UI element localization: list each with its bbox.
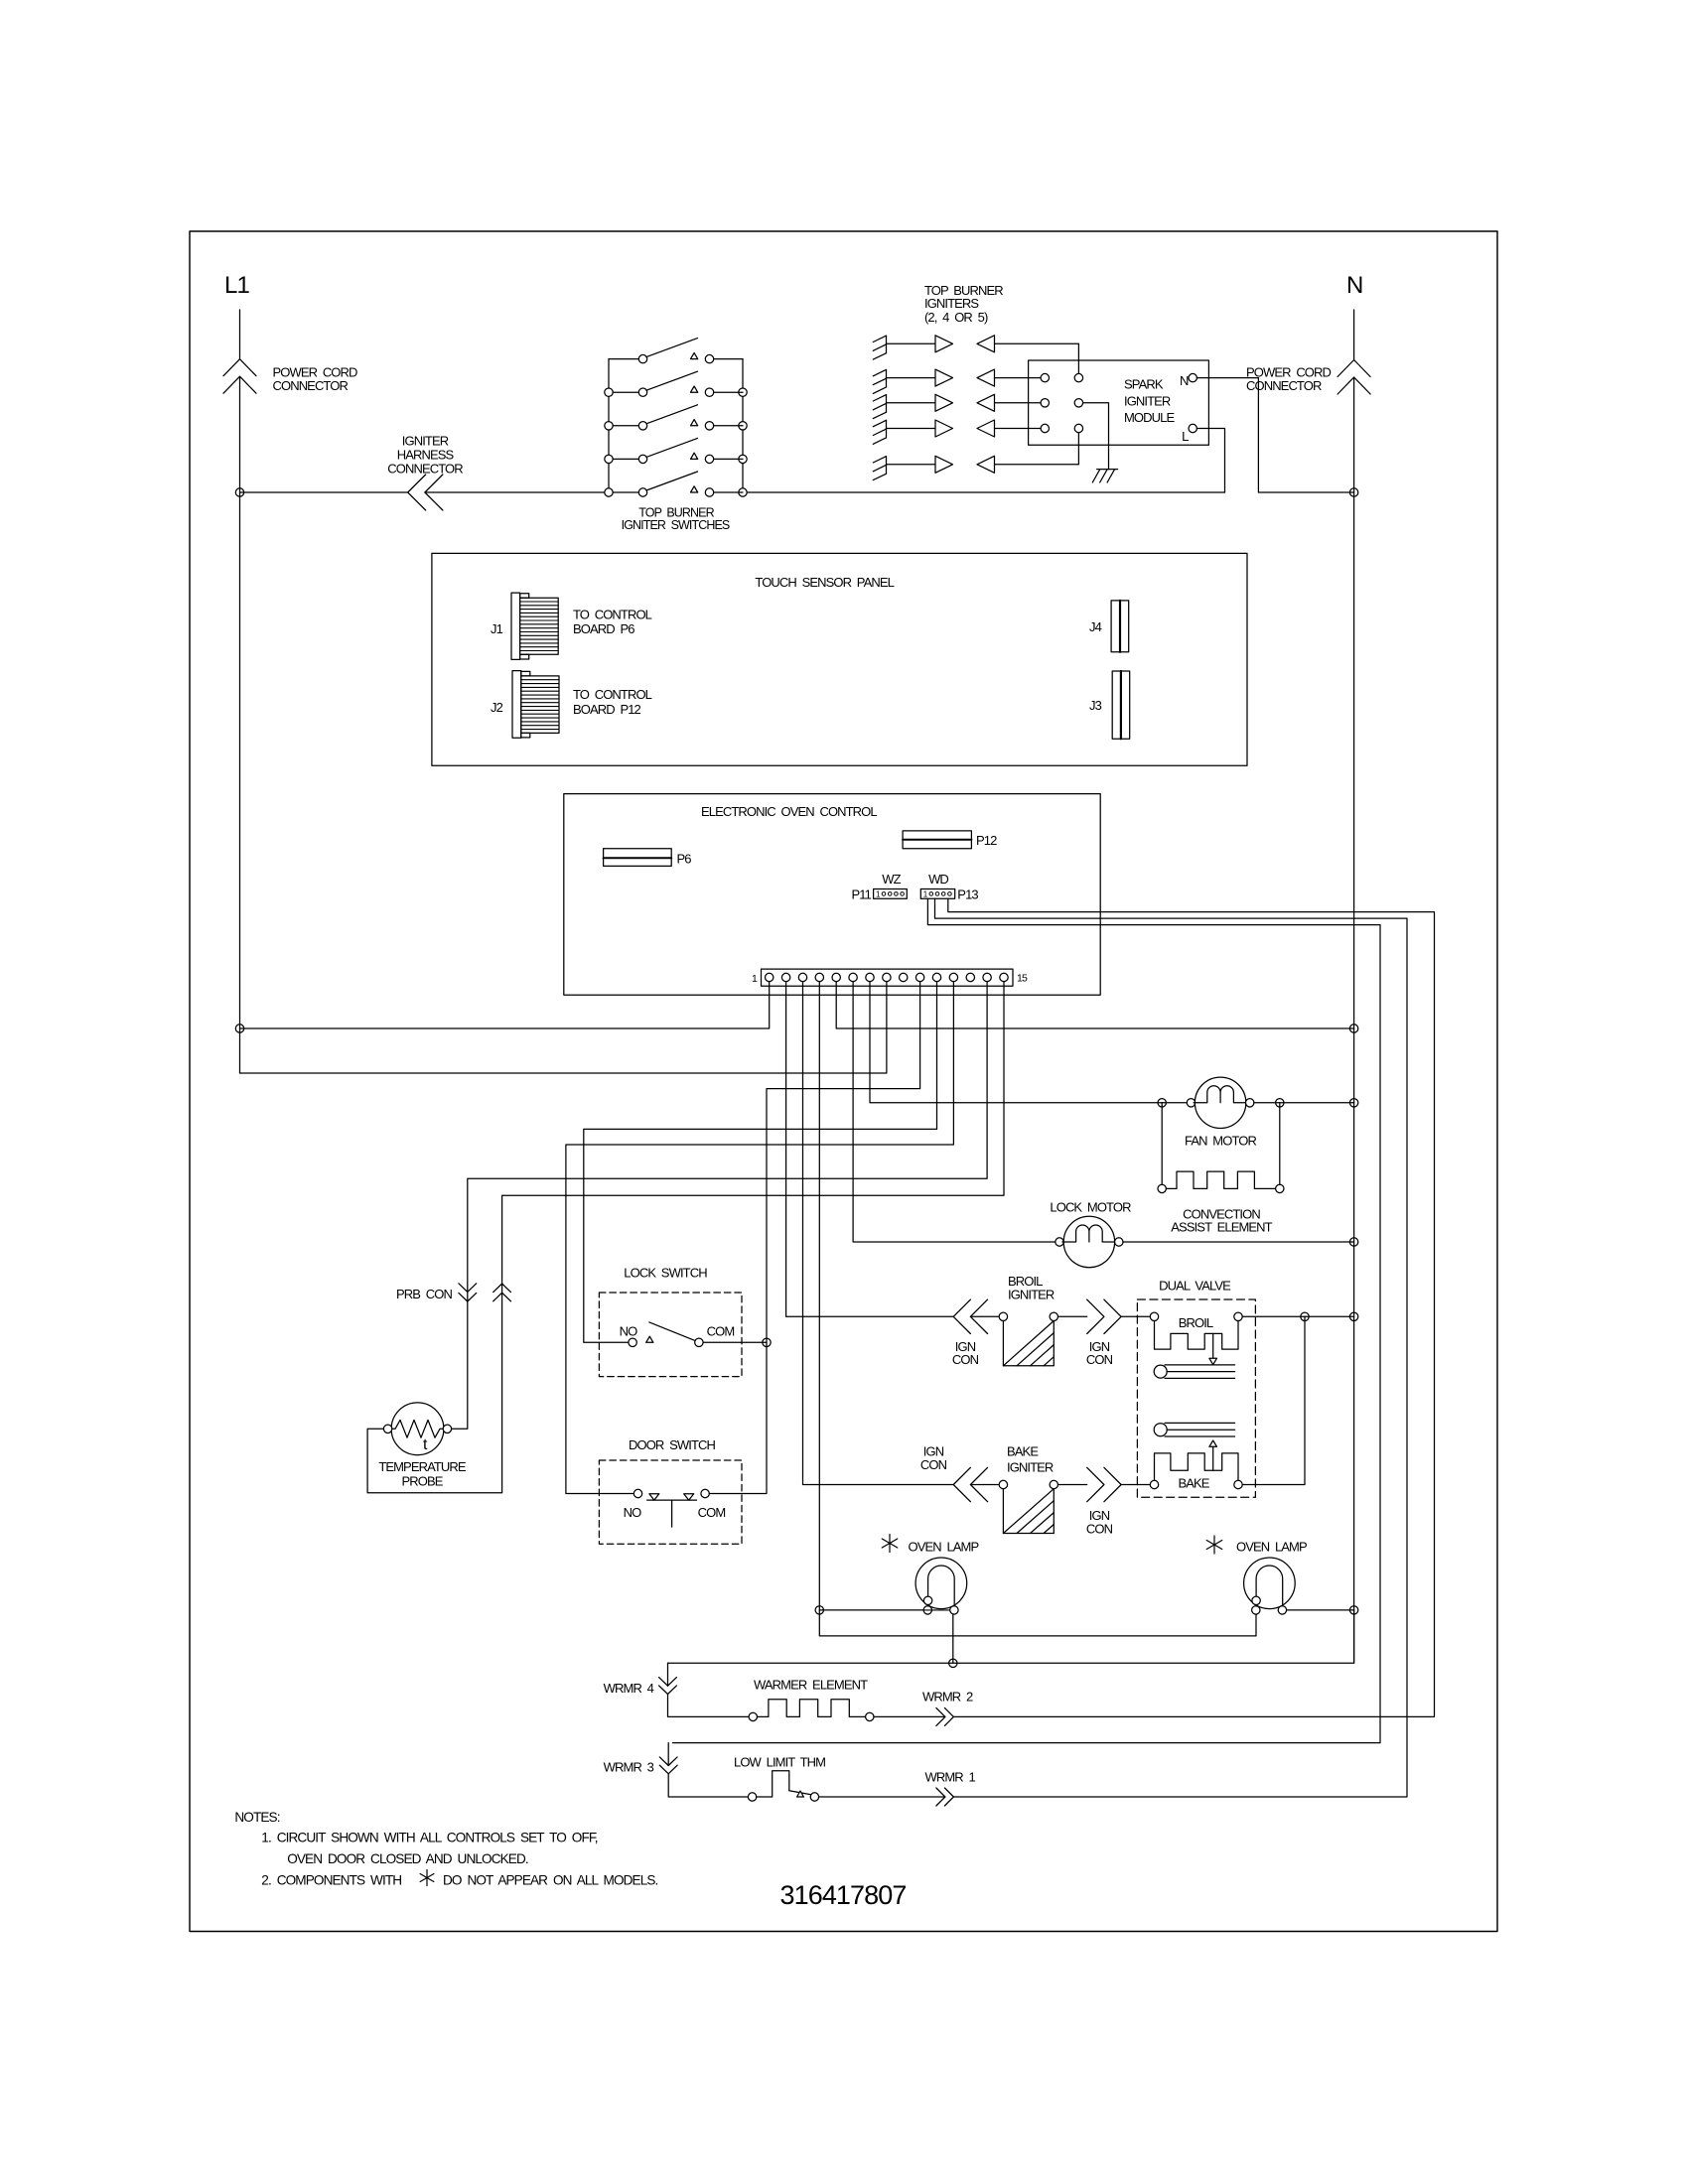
terminal pin 7 [866,973,874,981]
svg-text:BAKE: BAKE [1178,1476,1209,1491]
bake igniter left terminal [999,1480,1007,1488]
low limit right terminal [810,1793,818,1801]
wire pin1 to L1 [240,982,770,1028]
asterisk (lamp 2) [1213,1536,1215,1554]
terminal pin 2 [781,973,789,981]
module pin [1074,399,1082,407]
spark gap igniter 3 [887,402,936,404]
wire low limit to WRMR1 [819,1796,945,1798]
terminal strip [762,969,1014,986]
svg-text:CON: CON [920,1457,947,1472]
svg-text:OVEN LAMP: OVEN LAMP [1236,1540,1307,1555]
wire igniter2 to module [995,377,1042,379]
wire igniter1 to module [995,343,1079,373]
wire igniter3 to module [995,402,1042,404]
wire to bake igniter [970,1484,999,1486]
lock switch COM contact [695,1338,703,1346]
lock motor left terminal [1055,1238,1063,1246]
svg-text:COM: COM [707,1323,735,1338]
svg-text:CONNECTOR: CONNECTOR [273,378,349,393]
fan motor left terminal [1187,1099,1195,1107]
low limit left terminal [748,1793,756,1801]
wire lock motor to N [1123,1241,1354,1243]
border frame [190,231,1497,1932]
WRMR 4 connector [659,1678,677,1687]
svg-text:NOTES:: NOTES: [234,1810,279,1825]
warmer element left terminal [749,1712,757,1720]
lock motor [1063,1216,1114,1267]
door switch box [599,1460,742,1544]
svg-text:1. CIRCUIT SHOWN WITH ALL CO: 1. CIRCUIT SHOWN WITH ALL CONTROLS SET T… [261,1830,597,1844]
wire pin5 to N [836,982,1353,1028]
wire WRMR3 drop [667,1743,669,1766]
spark gap igniter 1 [887,342,936,344]
wire warmer to WRMR2 [874,1715,945,1717]
oven lamp 2 [1244,1558,1296,1609]
svg-text:IGNITER: IGNITER [1007,1459,1054,1474]
svg-text:J2: J2 [491,700,503,715]
svg-text:BOARD P12: BOARD P12 [573,702,641,717]
node pin1/L1 [235,1024,243,1032]
node lamp2/N [1349,1606,1357,1614]
svg-text:J3: J3 [1089,698,1102,713]
svg-text:CON: CON [1086,1352,1113,1367]
door switch marker 2 [684,1494,694,1500]
spark igniter module box [1029,360,1209,445]
wire pin12 to door switch [566,982,954,1494]
top burner igniter 1 electrode [886,336,888,353]
node lamp1 return [949,1659,957,1667]
door switch COM contact [701,1489,709,1497]
wire door COM to bus [709,1493,767,1495]
broil valve solenoid [1155,1321,1239,1350]
power cord connector (L1) [223,359,256,376]
wire module L to main bus [1196,429,1224,493]
wire lamp1 terminals [923,1609,949,1611]
svg-text:BAKE: BAKE [1007,1444,1039,1459]
wire broil igniter to valve [1058,1315,1087,1317]
module pin [1041,399,1049,407]
svg-text:IGNITER: IGNITER [1008,1288,1055,1302]
node oven lamp feed [815,1606,823,1614]
wire WRMR4 to warmer element [668,1695,750,1717]
connector J4 [1111,601,1129,652]
terminal pin 12 [949,973,957,981]
lock switch throw marker [646,1336,653,1342]
probe connector (down chevrons) [459,1284,477,1293]
broil valve left terminal [1150,1312,1158,1320]
temperature probe [391,1403,444,1455]
probe left terminal [383,1425,391,1433]
svg-text:NO: NO [624,1505,641,1520]
svg-text:TO CONTROL: TO CONTROL [573,608,652,622]
wire pin6 to lock motor [853,982,1055,1242]
spark gap igniter 4 [887,428,936,430]
connector P11 [874,889,908,899]
svg-text:P11: P11 [852,887,872,902]
module pin [1074,373,1082,381]
broil igniter left terminal [999,1312,1007,1320]
svg-text:WRMR 2: WRMR 2 [922,1689,973,1704]
top burner igniter 4 electrode [886,420,888,438]
broil valve right terminal [1234,1312,1242,1320]
IGN CON connector (bake right) [1087,1467,1104,1501]
svg-text:HARNESS: HARNESS [397,447,455,462]
svg-text:CONNECTOR: CONNECTOR [387,461,463,476]
svg-text:CON: CON [952,1352,979,1367]
svg-text:L1: L1 [224,272,249,299]
svg-text:IGNITER: IGNITER [1124,394,1171,409]
wire fan to N [1254,1102,1354,1104]
wire pin10 to switch COM bus [767,982,920,1493]
svg-text:(2, 4 OR 5): (2, 4 OR 5) [924,310,988,325]
lock switch NO contact [629,1338,636,1346]
svg-text:NO: NO [620,1323,637,1338]
wire igniter4 to module [995,428,1042,430]
probe connector (up chevrons) [493,1284,511,1293]
asterisk in note [426,1870,428,1886]
wire P13-b to WRMR1 feed [935,898,1408,1797]
svg-text:FAN MOTOR: FAN MOTOR [1185,1134,1256,1149]
node pin5/N [1349,1024,1357,1032]
node lock motor/N [1349,1238,1357,1246]
broil gas outlet [1154,1365,1167,1378]
IGN CON connector (broil right) [1087,1299,1104,1333]
svg-text:IGNITERS: IGNITERS [924,296,979,311]
svg-text:ASSIST ELEMENT: ASSIST ELEMENT [1171,1220,1272,1235]
svg-text:OVEN DOOR CLOSED AND UNLOCKED.: OVEN DOOR CLOSED AND UNLOCKED. [287,1851,528,1866]
warmer element [758,1700,866,1717]
spark gap igniter 5 [887,464,936,466]
terminal pin 4 [815,973,823,981]
svg-text:WRMR 4: WRMR 4 [604,1681,654,1696]
power cord connector (N) [1337,360,1370,377]
svg-text:LOCK MOTOR: LOCK MOTOR [1050,1200,1131,1215]
connector P13 [920,889,954,899]
svg-text:WRMR 3: WRMR 3 [604,1760,654,1775]
bake valve solenoid [1155,1453,1239,1480]
wire module N to N bus [1196,378,1353,492]
svg-text:N: N [1180,373,1189,388]
warmer element right terminal [866,1712,874,1720]
svg-text:2. COMPONENTS WITH: 2. COMPONENTS WITH [261,1873,401,1888]
wire switch right bus [742,359,744,492]
switch S4 [605,455,613,463]
wire fan line [1162,1102,1187,1104]
svg-text:P13: P13 [957,887,978,902]
module pin [1041,424,1049,432]
connector J3 [1112,671,1130,739]
switch S3 [605,422,613,430]
bake valve left terminal [1150,1480,1158,1488]
electronic oven control box [564,794,1100,996]
svg-text:TEMPERATURE: TEMPERATURE [378,1459,467,1474]
terminal pin 15 [1000,973,1008,981]
svg-text:WARMER ELEMENT: WARMER ELEMENT [754,1678,868,1693]
wire WRMR3 to low limit [668,1774,748,1797]
wire pin2 to broil igniter [786,982,954,1317]
broil igniter right terminal [1050,1312,1057,1320]
svg-text:N: N [1346,272,1362,299]
fan motor [1195,1077,1245,1128]
svg-text:OVEN LAMP: OVEN LAMP [909,1540,979,1555]
svg-text:DOOR SWITCH: DOOR SWITCH [629,1437,715,1452]
module terminal L [1189,424,1196,432]
wire convection right riser [1279,1103,1281,1184]
wire broil valve to N [1242,1315,1353,1317]
svg-text:TOUCH SENSOR PANEL: TOUCH SENSOR PANEL [755,575,894,590]
connector P6 [604,849,672,867]
wire lock COM to bus [703,1341,767,1343]
probe right terminal [443,1425,451,1433]
svg-text:LOW LIMIT THM: LOW LIMIT THM [734,1755,825,1770]
wire to broil igniter [970,1315,999,1317]
wire pin8 to L1 [240,982,887,1073]
wire bake valve riser [1242,1316,1305,1484]
wire pin14 to probe (PRB CON) [452,982,987,1430]
terminal pin 13 [966,973,974,981]
connector J1 [511,593,520,659]
bake valve flow arrow [1209,1440,1217,1446]
switch S5 [605,488,613,496]
oven lamp 1 [915,1558,967,1609]
svg-text:WD: WD [928,872,948,887]
svg-text:PROBE: PROBE [401,1473,443,1488]
svg-text:COM: COM [698,1505,726,1520]
WRMR 3 connector [659,1757,677,1766]
terminal pin 8 [883,973,891,981]
svg-text:LOCK SWITCH: LOCK SWITCH [624,1265,707,1280]
lock switch blade [649,1322,695,1341]
WRMR 1 connector [936,1788,945,1806]
lock motor right terminal [1115,1238,1123,1246]
fan motor right terminal [1246,1099,1254,1107]
wire N bus [1353,377,1355,1663]
top burner igniter 3 electrode [886,395,888,413]
module pin [1074,424,1082,432]
wire L1 drop [239,310,241,359]
door switch marker 1 [649,1494,659,1500]
terminal pin 5 [832,973,840,981]
svg-text:J4: J4 [1089,619,1102,634]
node L1-bus junction [235,488,243,496]
terminal pin 10 [915,973,923,981]
svg-text:DUAL VALVE: DUAL VALVE [1159,1279,1231,1294]
wire lamp feed to lamp1 [819,1609,923,1611]
svg-text:DO NOT APPEAR ON ALL MODELS.: DO NOT APPEAR ON ALL MODELS. [443,1873,658,1888]
wire pin15 to probe return [367,982,1004,1493]
node fan/N [1349,1099,1357,1107]
node broil/bake junction [1301,1312,1309,1320]
svg-text:CONNECTOR: CONNECTOR [1246,378,1322,393]
wire L1 bus vertical [239,376,241,1073]
connector P12 [903,831,971,849]
broil igniter (hot surface) [1003,1321,1054,1366]
convection left terminal [1158,1184,1166,1192]
touch sensor panel box [432,553,1247,765]
wire pin3 to bake igniter [803,982,954,1485]
wire pin4 to oven lamps [819,982,1256,1636]
broil valve flow arrow [1212,1333,1214,1358]
node fan feed [1158,1099,1166,1107]
svg-text:P12: P12 [976,833,997,848]
convection right terminal [1276,1184,1284,1192]
svg-text:SPARK: SPARK [1124,377,1164,392]
wire P13-c to WRMR2 feed [948,898,1435,1716]
wire WRMR4 drop [667,1663,669,1686]
wire switch block to spark module L riser [743,491,1225,493]
switch S2 [605,388,613,396]
wire convection left riser [1161,1103,1163,1184]
node lock switch COM junction [763,1338,771,1346]
svg-text:MODULE: MODULE [1124,410,1175,425]
IGN CON connector (broil left) [953,1299,970,1333]
svg-text:P6: P6 [677,852,692,867]
switch S1 [609,358,638,360]
svg-text:CON: CON [1086,1521,1113,1536]
dual valve box [1137,1299,1255,1497]
igniter harness connector [408,475,426,510]
wire switch left bus [608,359,610,492]
svg-text:L: L [1182,429,1189,444]
node broil/N [1349,1312,1357,1320]
wire lamp2 to N [1287,1609,1354,1611]
wire harness to switch block [425,491,609,493]
wire main bus L1 to harness connector [240,491,408,493]
svg-text:316417807: 316417807 [779,1880,906,1910]
ground [1097,469,1118,471]
terminal pin 6 [849,973,857,981]
node N main junction [1349,488,1357,496]
svg-text:PRB CON: PRB CON [396,1287,452,1301]
connector J2 [512,671,521,739]
wire N drop [1353,310,1355,360]
spark gap igniter 2 [887,377,936,379]
wire module mid pin to ground [1083,403,1109,470]
wire pin11 to lock switch [584,982,937,1343]
lock switch box [599,1293,742,1377]
terminal pin 3 [798,973,806,981]
bake valve right terminal [1234,1480,1242,1488]
svg-text:BOARD P6: BOARD P6 [573,621,634,636]
door switch NO contact [633,1489,641,1497]
low limit thermostat [757,1771,789,1797]
door switch plunger blade [647,1499,697,1501]
convection assist element [1166,1171,1275,1188]
IGN CON connector (bake left) [953,1467,970,1501]
svg-text:ELECTRONIC OVEN CONTROL: ELECTRONIC OVEN CONTROL [701,804,877,819]
top burner igniter 5 electrode [886,457,888,475]
bake gas outlet [1154,1424,1167,1436]
terminal pin 14 [983,973,991,981]
wire lamp1 to junction [952,1614,954,1663]
svg-text:IGNITER: IGNITER [402,434,449,449]
wire bake igniter to valve [1058,1484,1087,1486]
wire N return to warmer [668,1610,1354,1663]
terminal pin 1 [766,973,774,981]
svg-text:J1: J1 [491,621,503,636]
bake igniter right terminal [1050,1480,1057,1488]
svg-text:IGNITER SWITCHES: IGNITER SWITCHES [622,518,730,532]
svg-text:BROIL: BROIL [1179,1315,1213,1330]
asterisk (lamp 1) [889,1535,891,1553]
terminal pin 9 [900,973,908,981]
wire igniter5 to module [995,433,1079,465]
svg-text:TO CONTROL: TO CONTROL [573,687,652,702]
WRMR 2 connector [936,1707,945,1725]
bake igniter (hot surface) [1003,1489,1054,1534]
module pin [1041,373,1049,381]
node fan right junction [1276,1099,1284,1107]
svg-text:WRMR 1: WRMR 1 [925,1769,976,1784]
svg-text:WZ: WZ [882,872,901,887]
wire P13-a to WRMR3 feed [672,898,1380,1742]
top burner igniter 2 electrode [886,369,888,387]
wire pin7 to fan motor [870,982,1162,1103]
terminal pin 11 [932,973,940,981]
svg-text:15: 15 [1017,973,1028,985]
module terminal N [1189,373,1196,381]
